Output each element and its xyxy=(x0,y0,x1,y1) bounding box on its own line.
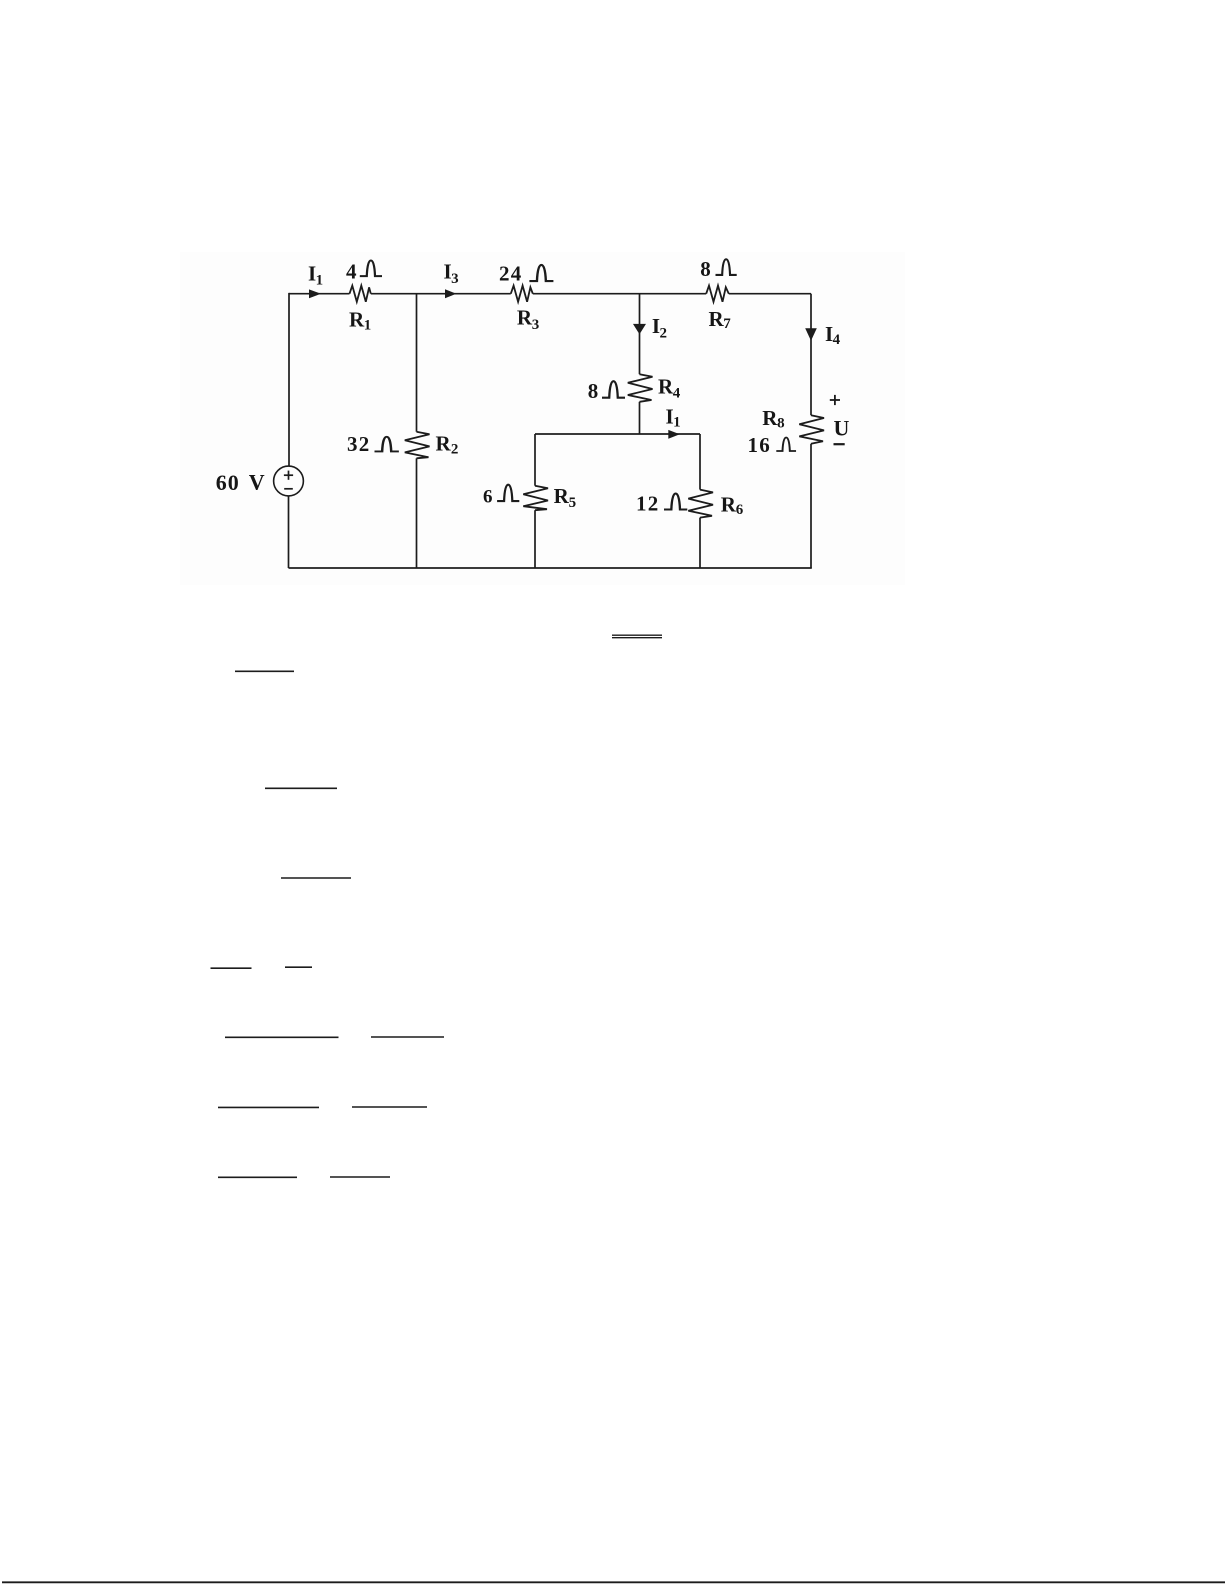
svg-text:2: 2 xyxy=(660,325,668,341)
blank line b xyxy=(265,787,337,789)
wire right lower (R8 down to bottom corner) xyxy=(810,444,812,568)
svg-text:7: 7 xyxy=(723,316,731,332)
wire top between R7 and right corner xyxy=(729,293,811,295)
svg-text:1: 1 xyxy=(364,318,372,334)
arrow I1 top xyxy=(309,289,321,298)
blank line d2 xyxy=(285,966,312,968)
label plus above U xyxy=(830,395,840,405)
svg-text:1: 1 xyxy=(316,272,324,288)
svg-text:U: U xyxy=(834,416,850,441)
blank line c xyxy=(281,877,351,879)
svg-text:8: 8 xyxy=(777,415,785,431)
label minus under U xyxy=(834,443,845,445)
resistor R1 zigzag xyxy=(350,286,371,302)
svg-text:1: 1 xyxy=(673,414,681,430)
svg-text:24: 24 xyxy=(499,262,523,286)
svg-text:4: 4 xyxy=(346,260,357,284)
source plus sign xyxy=(284,471,293,480)
source minus sign xyxy=(284,488,293,490)
wire R2 branch upper xyxy=(416,294,418,432)
scanned image background block xyxy=(180,252,905,585)
svg-text:3: 3 xyxy=(451,271,459,287)
wire middle horizontal xyxy=(535,433,700,435)
svg-text:8: 8 xyxy=(588,379,599,403)
svg-text:4: 4 xyxy=(833,332,841,348)
resistor R5 zigzag xyxy=(523,486,548,511)
svg-text:R: R xyxy=(721,492,737,516)
svg-text:V: V xyxy=(249,469,265,494)
wire R5 branch upper xyxy=(534,434,536,486)
wire R6 branch upper xyxy=(699,434,701,490)
blank line d1 xyxy=(211,967,252,969)
wire right upper (top corner down to R8) xyxy=(810,294,812,416)
blank double rule answer line xyxy=(612,634,662,636)
blank line g2 xyxy=(330,1176,390,1178)
svg-text:16: 16 xyxy=(748,433,772,457)
wire top between R3 and R7 xyxy=(533,293,706,295)
blank line a xyxy=(235,670,294,672)
svg-text:2: 2 xyxy=(451,442,459,458)
wire R6 branch lower xyxy=(699,518,701,568)
svg-text:5: 5 xyxy=(569,495,577,511)
wire R2 branch lower xyxy=(416,458,418,568)
svg-text:R: R xyxy=(349,308,365,332)
svg-text:R: R xyxy=(709,307,725,331)
resistor R8 zigzag xyxy=(799,415,824,444)
svg-text:60: 60 xyxy=(216,470,240,495)
arrow I3 xyxy=(445,289,456,298)
arrow I1 middle right xyxy=(668,430,680,439)
blank line e1 xyxy=(225,1036,339,1038)
blank line g1 xyxy=(218,1176,297,1178)
wire top left segment xyxy=(289,293,350,295)
svg-text:32: 32 xyxy=(347,432,371,456)
blank line f2 xyxy=(352,1106,427,1108)
arrow I2 down xyxy=(633,324,646,334)
svg-text:6: 6 xyxy=(736,502,744,518)
voltage source 60V circle xyxy=(274,466,304,496)
wire top between R1 and R3 xyxy=(371,293,511,295)
wire R4 branch lower xyxy=(639,402,641,434)
wire left upper (top corner down to source) xyxy=(288,293,290,467)
resistor R6 zigzag xyxy=(688,490,713,518)
blank line e2 xyxy=(371,1036,444,1038)
svg-text:6: 6 xyxy=(483,486,493,507)
resistor R2 zigzag xyxy=(405,432,430,459)
svg-text:3: 3 xyxy=(532,317,540,333)
wire R4 branch upper xyxy=(639,294,641,375)
resistor R7 zigzag xyxy=(706,286,729,302)
arrow I4 down xyxy=(805,328,817,341)
svg-text:R: R xyxy=(517,306,533,330)
bottom page rule xyxy=(2,1581,1225,1583)
svg-text:R: R xyxy=(658,375,674,399)
svg-text:8: 8 xyxy=(700,257,711,281)
svg-text:R: R xyxy=(554,484,570,508)
blank line f1 xyxy=(218,1106,319,1108)
svg-text:12: 12 xyxy=(636,492,660,516)
svg-text:R: R xyxy=(762,406,778,430)
resistor R3 zigzag xyxy=(511,286,533,302)
wire left lower (source down to bottom corner) xyxy=(288,496,290,568)
wire bottom rail xyxy=(289,567,812,569)
resistor R4 zigzag xyxy=(628,374,653,402)
svg-text:R: R xyxy=(436,432,452,456)
wire R5 branch lower xyxy=(534,510,536,568)
svg-text:4: 4 xyxy=(673,385,681,401)
